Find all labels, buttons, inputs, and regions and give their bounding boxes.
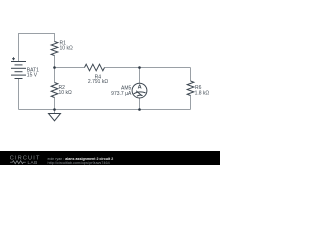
svg-text:LAB: LAB bbox=[28, 160, 38, 165]
svg-text:http://circuitlab.com/cqw/pr9u: http://circuitlab.com/cqw/pr9uws7464 bbox=[48, 161, 110, 165]
svg-text:10 kΩ: 10 kΩ bbox=[59, 90, 72, 96]
svg-text:15 V: 15 V bbox=[27, 73, 38, 79]
svg-text:2.791 kΩ: 2.791 kΩ bbox=[88, 79, 108, 85]
svg-text:A: A bbox=[138, 85, 142, 91]
svg-text:1.8 kΩ: 1.8 kΩ bbox=[195, 90, 210, 96]
svg-text:10 kΩ: 10 kΩ bbox=[60, 46, 73, 52]
svg-text:973.7 µA: 973.7 µA bbox=[111, 91, 132, 97]
